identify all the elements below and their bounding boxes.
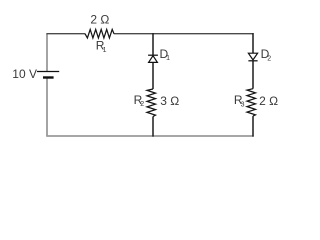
svg-text:2 Ω: 2 Ω [90, 13, 109, 27]
svg-text:2 Ω: 2 Ω [259, 94, 278, 108]
svg-text:3: 3 [241, 101, 245, 108]
svg-text:3 Ω: 3 Ω [160, 94, 179, 108]
svg-text:1: 1 [166, 55, 170, 62]
svg-text:2: 2 [267, 55, 271, 62]
svg-text:10 V: 10 V [12, 67, 37, 81]
svg-text:1: 1 [103, 47, 107, 54]
svg-text:2: 2 [140, 101, 144, 108]
